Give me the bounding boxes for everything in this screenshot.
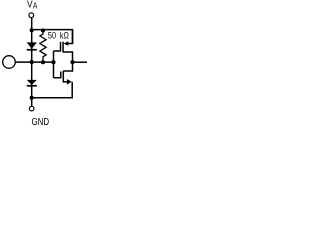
svg-text:GND: GND — [32, 117, 50, 127]
svg-text:A: A — [33, 2, 38, 11]
svg-text:50: 50 — [48, 31, 56, 41]
svg-text:kΩ: kΩ — [60, 31, 69, 41]
